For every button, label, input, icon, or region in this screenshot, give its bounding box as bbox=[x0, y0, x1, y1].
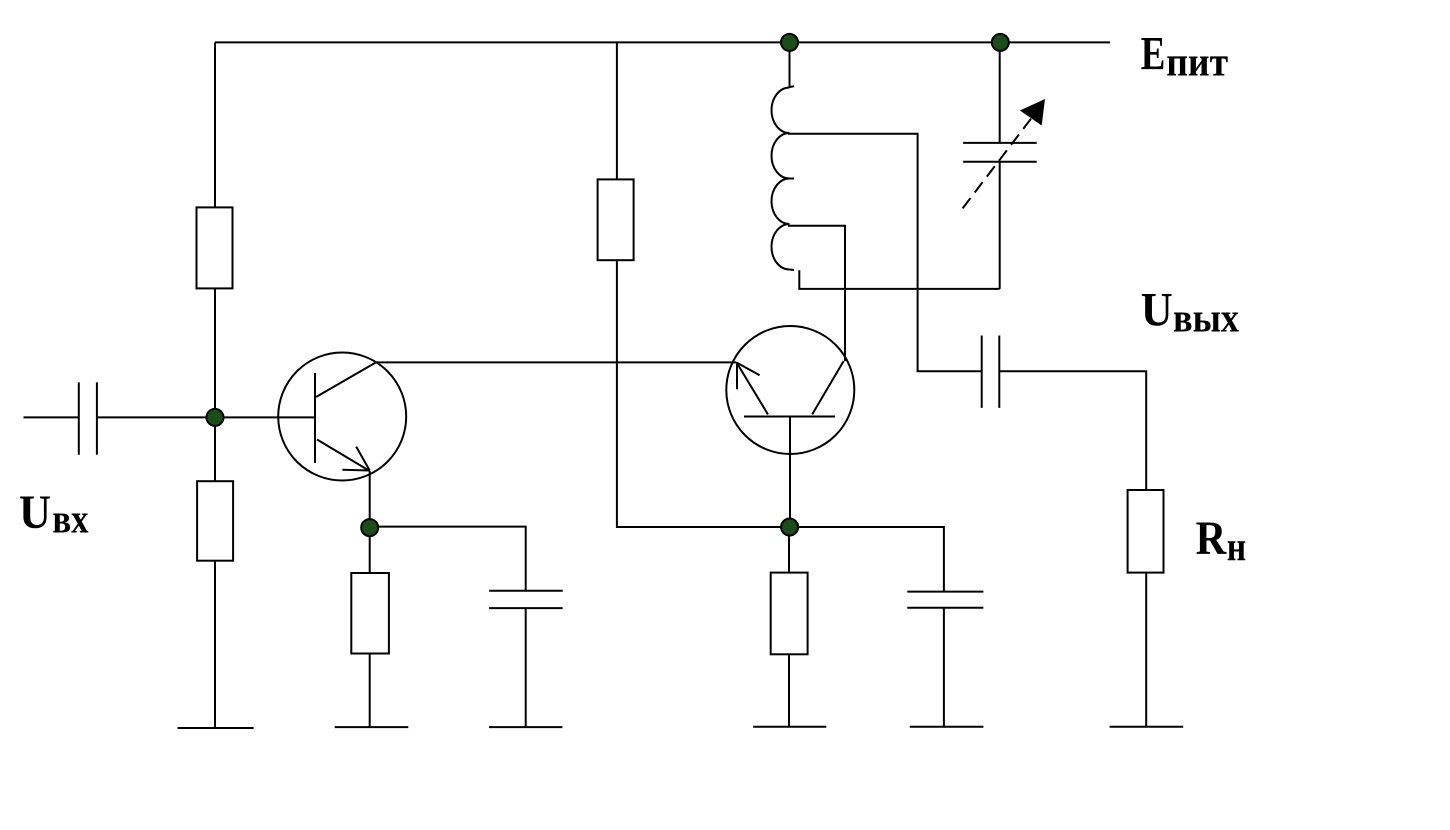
ground 5 bbox=[910, 726, 984, 728]
svg-text:пит: пит bbox=[1166, 39, 1228, 85]
svg-text:н: н bbox=[1227, 523, 1246, 569]
wire tap1 to C5 bbox=[788, 134, 982, 372]
ground 2 bbox=[335, 726, 409, 728]
ground 3 bbox=[489, 726, 562, 728]
capacitor C4 bbox=[907, 591, 983, 593]
wire emitter node to R3 bbox=[369, 528, 371, 573]
svg-text:вх: вх bbox=[52, 496, 89, 542]
wire C1 to base node bbox=[97, 416, 315, 418]
resistor R5 bbox=[771, 573, 808, 655]
wire emitter node to C2 bbox=[370, 527, 526, 591]
wire node to R5 bbox=[788, 527, 790, 573]
inductor L1 lead bbox=[789, 42, 791, 87]
wire top supply rail bbox=[215, 41, 1110, 43]
node dot rail left bbox=[781, 34, 798, 51]
wire tap2 to Q2 collector bbox=[788, 226, 845, 361]
wire Q2 base lead down bbox=[789, 417, 791, 528]
wire R4 down to emitter node of Q2 bbox=[617, 260, 790, 527]
ground 1 bbox=[178, 727, 254, 729]
capacitor C2 bbox=[489, 590, 563, 592]
node dot Q1 base bbox=[207, 409, 224, 426]
resistor RH bbox=[1128, 490, 1164, 573]
transistor Q1 bbox=[278, 353, 406, 481]
wire R1 to base node bbox=[214, 288, 216, 481]
ground 4 bbox=[753, 726, 826, 728]
wire C5 to RH bbox=[999, 371, 1146, 490]
node dot Q1 emitter bbox=[361, 519, 378, 536]
wire R3 to ground bbox=[369, 654, 371, 728]
svg-text:U: U bbox=[1141, 284, 1173, 337]
variable capacitor C3 bbox=[963, 142, 1037, 144]
capacitor C1 bbox=[78, 382, 80, 454]
wire R5 to ground bbox=[788, 654, 790, 727]
node dot rail right bbox=[992, 34, 1009, 51]
wire variable capacitor upper bbox=[999, 42, 1001, 142]
wire R4 branch upper bbox=[616, 42, 618, 179]
resistor R4 bbox=[598, 179, 634, 260]
svg-text:вых: вых bbox=[1173, 295, 1239, 341]
wire emitter node of Q2 to C4 bbox=[790, 527, 944, 592]
wire Q1 emitter bbox=[369, 471, 371, 528]
wire RH to ground bbox=[1145, 573, 1147, 727]
svg-text:Е: Е bbox=[1141, 28, 1166, 81]
wire R2 to ground bbox=[214, 561, 216, 728]
resistor R2 bbox=[197, 481, 233, 561]
inductor L1 bbox=[772, 88, 790, 270]
resistor R1 bbox=[197, 207, 233, 288]
svg-text:U: U bbox=[19, 486, 51, 539]
wire C4 to ground bbox=[943, 608, 945, 727]
resistor R3 bbox=[351, 573, 389, 654]
node dot Q2 node bbox=[781, 519, 798, 536]
wire left branch upper bbox=[214, 42, 216, 207]
capacitor C5 bbox=[981, 336, 983, 408]
wire coil bottom bbox=[799, 270, 999, 289]
transistor Q2 bbox=[726, 326, 854, 454]
svg-text:R: R bbox=[1196, 512, 1228, 565]
wire Q1 collector to Q2 emitter bbox=[376, 361, 737, 363]
capacitor C1 left lead bbox=[24, 416, 79, 418]
wire C2 to ground bbox=[525, 608, 527, 727]
ground 6 bbox=[1110, 726, 1184, 728]
